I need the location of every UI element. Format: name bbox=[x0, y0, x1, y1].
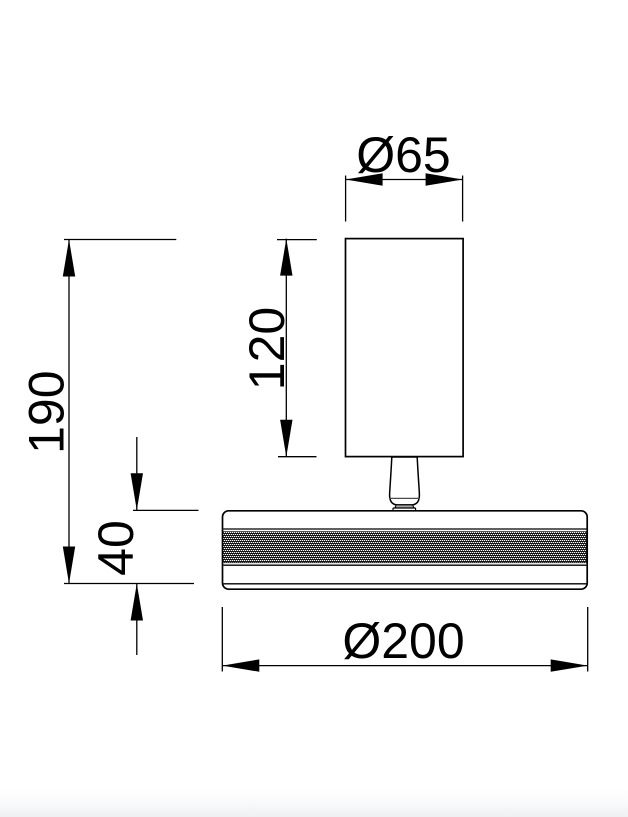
svg-text:190: 190 bbox=[19, 370, 75, 453]
svg-text:Ø65: Ø65 bbox=[356, 127, 451, 183]
svg-text:40: 40 bbox=[88, 520, 144, 576]
svg-text:Ø200: Ø200 bbox=[342, 613, 464, 669]
svg-text:120: 120 bbox=[239, 307, 295, 390]
